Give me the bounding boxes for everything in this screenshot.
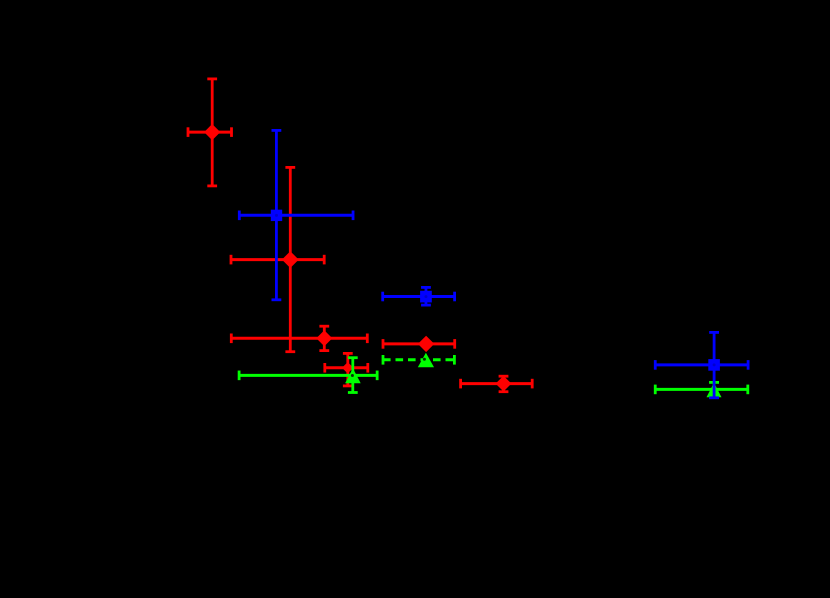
blue square marker B2 <box>420 291 432 303</box>
red diamond marker R6 <box>496 376 512 392</box>
green point G1 x-error bar <box>239 371 377 381</box>
red point R1 y-error bar <box>207 79 217 186</box>
red point R6 y-error bar <box>499 376 509 392</box>
red point R3 y-error bar <box>319 326 329 350</box>
green point G3 x-error bar <box>655 385 748 395</box>
dark open-centre dot of triangle G1 <box>351 374 354 377</box>
green point G1 y-error bar <box>348 358 358 393</box>
blue point B1 y-error bar <box>272 130 282 299</box>
blue square marker B1 <box>271 210 282 221</box>
dark open-centre dot of square B3 <box>713 363 716 366</box>
red point R2 y-error bar <box>285 167 295 351</box>
red point R6 x-error bar <box>461 379 533 389</box>
red diamond marker R3 <box>316 330 332 346</box>
red point R2 x-error bar <box>231 255 324 265</box>
blue point B1 x-error bar <box>239 211 353 221</box>
green point G3 y-error bar <box>709 382 719 397</box>
red point R1 x-error bar <box>188 127 232 137</box>
dark open-centre dot of square B2 <box>424 295 427 298</box>
blue point B2 x-error bar <box>383 292 455 302</box>
red point R5 y-error bar <box>343 353 353 386</box>
dark open-centre dot of square B1 <box>275 214 278 217</box>
red diamond marker R1 <box>204 124 220 140</box>
green point G2 dashed x-error bar <box>383 355 454 365</box>
blue square marker B3 <box>708 359 720 371</box>
red diamond marker R4 <box>418 336 434 352</box>
blue point B3 y-error bar <box>709 332 719 397</box>
red point R5 x-error bar <box>325 363 368 373</box>
red diamond marker R5 <box>342 362 353 373</box>
green triangle marker G3 <box>707 383 722 398</box>
red point R4 x-error bar <box>383 339 455 349</box>
red point R3 x-error bar <box>231 334 367 344</box>
blue point B3 x-error bar <box>655 360 748 370</box>
red diamond marker R2 <box>282 251 299 268</box>
dark open-centre dot of triangle G2 <box>423 358 426 361</box>
green triangle marker G1 <box>345 368 361 383</box>
blue point B2 y-error bar <box>421 287 431 305</box>
green triangle marker G2 <box>418 353 434 367</box>
